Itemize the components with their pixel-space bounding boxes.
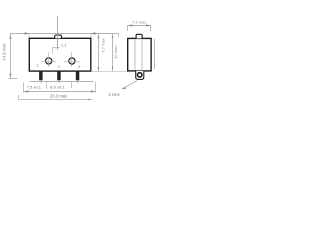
top dim line 7.2 max [128, 26, 151, 32]
terminal hidden line left [134, 39, 136, 70]
crosshair vertical C1 [48, 52, 50, 67]
svg-text:1.1: 1.1 [61, 44, 66, 48]
side dim line 10 max right [154, 39, 156, 69]
button travel tick [52, 48, 54, 54]
table divider mid [71, 82, 73, 88]
leader line to terminal [122, 81, 137, 89]
svg-text:10 max: 10 max [113, 46, 118, 59]
svg-text:6.7 max: 6.7 max [101, 38, 106, 52]
mounting hole left circle C1 [46, 58, 52, 64]
pin 2 [57, 72, 61, 81]
svg-text:1: 1 [37, 64, 39, 68]
crosshair vertical C2 [71, 52, 73, 67]
leader arrowhead [122, 87, 126, 89]
arrowheads overall width [24, 90, 95, 92]
button travel line 1.1 [52, 47, 60, 49]
switch body (left view) [29, 38, 91, 71]
svg-text:7.5 ±0.1: 7.5 ±0.1 [27, 85, 42, 90]
solder terminal tab [136, 71, 144, 80]
pin 1 [39, 72, 43, 81]
extension line body right top [90, 34, 92, 38]
plunger button (left view) [55, 35, 62, 38]
bottom extension between views [91, 71, 128, 73]
extension line body left top [28, 34, 30, 38]
terminal hole [138, 73, 142, 77]
pin 3 [76, 72, 80, 81]
terminal hidden line right [141, 39, 143, 70]
svg-text:3 cms: 3 cms [108, 92, 119, 97]
arrowheads top dim line [25, 32, 96, 34]
crosshair horizontal C1 [41, 61, 57, 63]
datum extension under pins [19, 95, 92, 100]
svg-text:14.8 max: 14.8 max [2, 44, 7, 61]
arrowheads 6.7 [98, 35, 100, 70]
table divider left [23, 83, 25, 93]
switch body (side view) [128, 38, 151, 71]
mounting hole right circle C2 [69, 58, 75, 64]
pin pitch dimension line [29, 80, 93, 83]
svg-text:8.5 ±0.1: 8.5 ±0.1 [50, 85, 65, 90]
svg-text:2: 2 [58, 65, 60, 69]
plunger button (side view) [136, 34, 142, 38]
overall width dimension line [24, 91, 96, 93]
top dimension line 20.3 max [11, 34, 119, 38]
arrowheads 7.2 [128, 24, 150, 26]
svg-text:20.3 max: 20.3 max [50, 93, 68, 98]
height dim line 6.7 max [98, 34, 100, 71]
arrowheads 10 max [112, 35, 114, 70]
arrowheads left dim line [9, 35, 11, 77]
height dim line 10 max [112, 34, 114, 71]
table divider mid-left [46, 83, 48, 90]
arrowhead datum line [88, 99, 92, 101]
centerline plunger [57, 16, 59, 50]
svg-text:3: 3 [78, 65, 80, 69]
svg-text:7.2 max: 7.2 max [132, 19, 146, 24]
background [0, 0, 160, 120]
left dimension line 14.8 max [9, 34, 18, 79]
crosshair horizontal C2 [64, 61, 80, 63]
table divider right [95, 82, 97, 93]
